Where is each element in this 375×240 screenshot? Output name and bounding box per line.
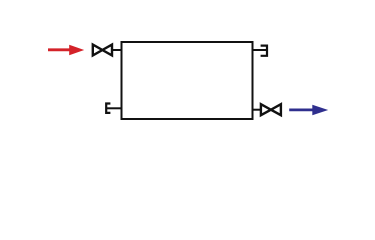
- blanking plug P2 (bottom left): [106, 104, 110, 113]
- wire: inlet valve to radiator: [113, 49, 122, 51]
- flow arrow OUT (navy): [289, 105, 328, 116]
- blanking plug P1 (top right): [261, 46, 267, 56]
- flow arrow IN (red): [48, 45, 84, 56]
- wire: bottom-left plug to radiator: [107, 107, 122, 109]
- wire: radiator to top-right plug: [253, 49, 267, 51]
- radiator body: [122, 42, 253, 119]
- wire: radiator to outlet valve: [253, 109, 262, 111]
- valve V1 (inlet): [93, 45, 112, 56]
- valve V2 (outlet): [261, 104, 281, 115]
